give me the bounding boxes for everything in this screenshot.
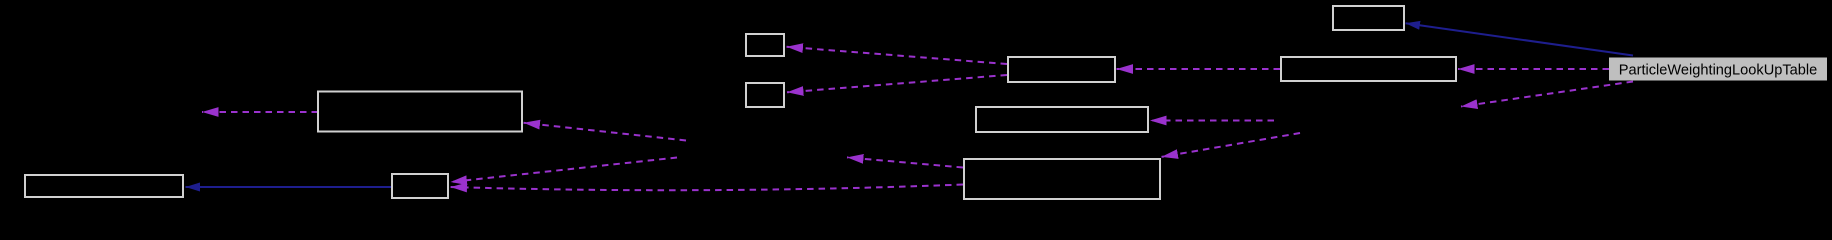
- svg-text:ParticleWeightingLookUpTable: ParticleWeightingLookUpTable: [1619, 63, 1817, 79]
